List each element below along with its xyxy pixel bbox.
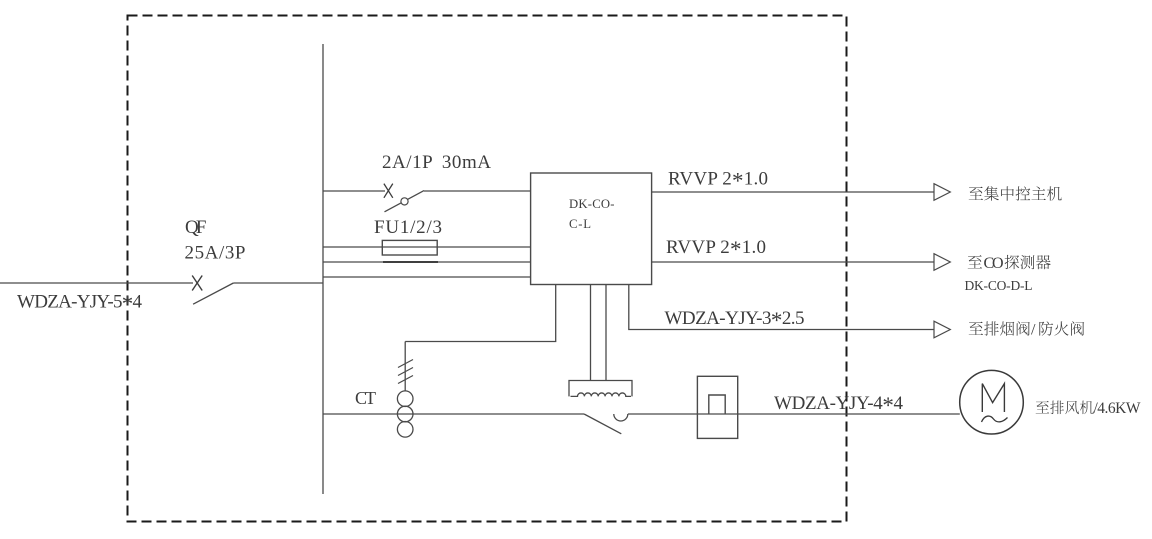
- wire motor feeder left: [323, 413, 584, 415]
- breaker 2A/1P blade: [385, 191, 425, 212]
- wire output damper: box pin down: [629, 285, 934, 330]
- current transformer CT coils: [397, 391, 413, 437]
- CT wire slashes: [398, 360, 413, 384]
- label 至集中控主机: [969, 187, 983, 200]
- motor M circle: [960, 370, 1024, 434]
- wire box pin 1 to CT branch: [405, 285, 556, 342]
- svg-text:/4.6KW: /4.6KW: [1094, 400, 1141, 417]
- label 至排风机/4.6KW: [1036, 401, 1050, 414]
- dashed enclosure border: [128, 16, 847, 522]
- wire output RVVP 2: [652, 261, 934, 263]
- arrow output 3: [934, 321, 950, 338]
- wire phase L2: [323, 261, 531, 263]
- svg-text:2A/1P 30mA: 2A/1P 30mA: [382, 152, 491, 173]
- fuse FU1/2/3 body: [382, 240, 437, 255]
- svg-text:CO: CO: [984, 255, 1004, 272]
- breaker 2A/1P contact cross: [384, 184, 393, 198]
- breaker 2A/1P RCD circle: [401, 198, 408, 205]
- motor M letter: [982, 384, 1004, 412]
- wire incoming feeder right segment: [233, 282, 323, 284]
- busbar (vertical bus line): [322, 44, 324, 494]
- thermal relay element: [709, 395, 725, 414]
- wire branch 2A/1P left segment: [323, 190, 385, 192]
- arrow output 2: [934, 254, 950, 271]
- motor tilde: [982, 416, 1008, 422]
- svg-text:25A/3P: 25A/3P: [185, 243, 246, 264]
- wire incoming feeder left segment: [0, 282, 193, 284]
- svg-text:C-L: C-L: [569, 217, 591, 231]
- svg-text:DK-CO-D-L: DK-CO-D-L: [965, 278, 1033, 293]
- contactor coil KM: [569, 381, 632, 397]
- svg-text:QF: QF: [185, 217, 207, 238]
- wire motor feeder mid: [628, 413, 960, 415]
- wire phase L1: [323, 246, 531, 248]
- svg-text:FU1/2/3: FU1/2/3: [374, 217, 442, 238]
- wire branch 2A/1P right segment: [424, 190, 531, 192]
- wire output RVVP 1: [652, 191, 934, 193]
- svg-text:CT: CT: [355, 388, 376, 408]
- svg-text:/: /: [1031, 322, 1036, 339]
- contactor main contact blade: [584, 414, 621, 434]
- label 至排烟阀/防火阀: [969, 322, 983, 335]
- svg-text:DK-CO-: DK-CO-: [569, 197, 615, 211]
- breaker QF blade: [193, 283, 233, 304]
- contactor contact arc: [614, 414, 628, 421]
- thermal relay box: [697, 376, 737, 438]
- wire CT drop: [404, 342, 406, 392]
- wire box pins to contactor coil: [590, 285, 592, 381]
- breaker QF contact cross: [192, 276, 202, 291]
- fuse FU2 overlapped segment: [383, 261, 438, 263]
- controller box DK-CO-C-L: [531, 173, 652, 285]
- arrow output 1: [934, 184, 950, 201]
- label 至CO探测器: [968, 255, 982, 268]
- wire phase L3: [323, 276, 531, 278]
